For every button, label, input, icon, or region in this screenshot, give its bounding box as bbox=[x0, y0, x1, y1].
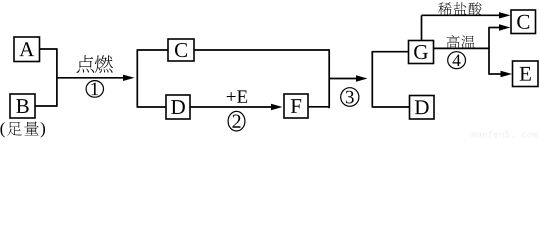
bracket vertical splitting products to C and E bbox=[488, 27, 490, 75]
box C2 substance C bbox=[511, 10, 536, 34]
bracket vertical splitting to G and D bbox=[371, 51, 373, 108]
wire bracket to box G bbox=[372, 51, 408, 53]
wire arrow shaft of ignition reaction ① bbox=[57, 77, 126, 79]
arrowhead of high-temperature product arrow at box E bbox=[501, 71, 513, 77]
wire bracket to box C bbox=[137, 49, 168, 51]
box A substance A bbox=[14, 37, 40, 62]
wire from box A to bracket bbox=[40, 48, 57, 50]
wire arrow shaft product to box C bbox=[489, 27, 501, 29]
wire bracket to box D bbox=[137, 106, 166, 108]
arrowhead of +E arrow at box F bbox=[271, 104, 283, 110]
wire from box G top up to dilute-HCl arrow bbox=[421, 15, 423, 41]
box G substance G bbox=[409, 41, 434, 64]
circled step number ① bbox=[86, 81, 103, 98]
wire bracket to lower box D bbox=[372, 106, 409, 108]
bracket vertical splitting to C and D bbox=[136, 49, 138, 107]
label +E on arrow ② bbox=[227, 90, 247, 102]
box E substance E bbox=[513, 61, 539, 87]
arrowhead of ignition arrow ① bbox=[123, 75, 135, 81]
wire box F to right vertical bbox=[308, 106, 329, 108]
box C1 substance C bbox=[168, 39, 194, 61]
wire from box B to bracket bbox=[35, 105, 57, 107]
bracket vertical joining A and B bbox=[56, 48, 58, 106]
parenthesis left of 足量 bbox=[0, 122, 4, 137]
label 足量 (excess) below box B bbox=[7, 122, 22, 136]
box F substance F bbox=[284, 94, 308, 118]
label 点燃 (ignite) above arrow ① bbox=[77, 55, 95, 73]
circled step number ② bbox=[228, 111, 245, 131]
box B substance B bbox=[10, 94, 35, 118]
circled step number ④ bbox=[448, 52, 466, 69]
arrowhead of arrow ③ bbox=[356, 75, 368, 81]
wire arrow shaft of reaction ③ bbox=[329, 78, 359, 80]
arrowhead of dilute-HCl arrow at box C bbox=[499, 12, 511, 18]
box D2 substance D bbox=[410, 96, 435, 120]
wire arrow shaft of +E reaction ② from D to F bbox=[190, 106, 274, 108]
wire of high-temperature reaction ④ from G bbox=[434, 47, 490, 49]
label 高温 (high temperature) above arrow ④ bbox=[446, 35, 459, 49]
arrowhead of high-temperature product arrow at box C bbox=[499, 24, 511, 30]
box D1 substance D bbox=[166, 95, 190, 119]
circled step number ③ bbox=[341, 88, 359, 107]
bracket vertical joining C and F bbox=[328, 49, 330, 108]
parenthesis right of 足量 bbox=[41, 122, 45, 137]
wire arrow shaft product to box E bbox=[489, 73, 503, 75]
label 稀盐酸 (dilute hydrochloric acid) above top-right arrow bbox=[438, 2, 452, 15]
watermark manfen5.com bbox=[471, 131, 537, 138]
wire arrow shaft of dilute-HCl reaction to box C bbox=[422, 14, 502, 16]
wire box C to right vertical bbox=[194, 49, 329, 51]
